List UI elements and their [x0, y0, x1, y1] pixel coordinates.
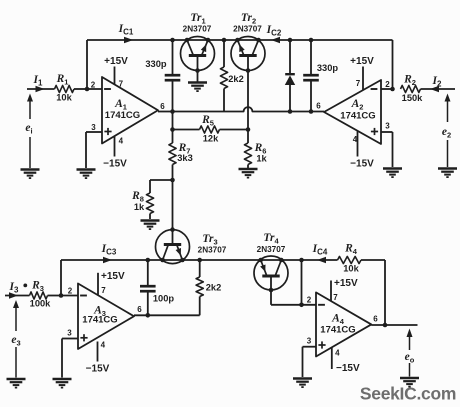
wire R8 horizontal stub [150, 179, 173, 181]
pin 7 line of A2 [362, 67, 364, 90]
pin 4 line of A3 [97, 342, 99, 362]
resistor R6 [244, 143, 251, 165]
current arrow I1 [36, 86, 45, 93]
junction dot at A4 pin 2 node [299, 303, 304, 308]
resistor 2k2 (top) [220, 67, 227, 89]
wire vertical from top rail down to node 2 of A2 [392, 40, 394, 89]
svg-text:3k3: 3k3 [177, 153, 193, 163]
source arrow e_i [27, 94, 33, 102]
svg-text:IC4: IC4 [312, 243, 328, 257]
junction dot 2k2 top on rail [222, 38, 227, 43]
node junction at A2 pin 2 [390, 87, 395, 92]
node junction at A1 pin 2 [85, 87, 90, 92]
op-amp A3 [78, 284, 134, 350]
pin 2 wire of A3 [61, 295, 78, 297]
svg-text:R1: R1 [56, 73, 69, 87]
resistor R3 [30, 292, 48, 299]
svg-text:100p: 100p [153, 294, 175, 304]
svg-text:R3: R3 [31, 280, 44, 294]
wire node down to Tr3 base [172, 180, 174, 230]
svg-text:2: 2 [385, 80, 390, 89]
pin 7 line of A1 [114, 67, 116, 85]
base lead of Tr2 down to R5/R6 node [247, 57, 249, 130]
svg-text:3: 3 [67, 328, 72, 337]
junction dot 330p right bottom [309, 109, 314, 114]
non-inverting input marker of A1 [104, 131, 111, 133]
wire R4 to output corner [384, 260, 386, 325]
wire R3 to node 2 of A3 [48, 295, 62, 297]
wire R5 left stub [173, 129, 200, 131]
wire diode to mid rail [289, 85, 291, 112]
junction dot Tr4 left on bottom rail [258, 258, 263, 263]
junction dot Tr2 right on top rail [256, 38, 261, 43]
svg-text:I1: I1 [33, 74, 43, 88]
ground of A3 pin 3 [53, 378, 72, 380]
svg-text:−15V: −15V [350, 159, 374, 170]
wire R8 bottom stub [149, 214, 151, 220]
node junction at A3 pin 2 [59, 293, 64, 298]
svg-text:e3: e3 [11, 334, 20, 348]
wire top rail to 2k2 [223, 40, 225, 67]
pin 2 wire of A2 [381, 88, 393, 90]
op-amp A1 [102, 77, 158, 144]
svg-text:3: 3 [385, 121, 390, 130]
svg-text:4: 4 [119, 137, 124, 146]
wire bottom rail (I_C3/I_C4) [61, 259, 338, 261]
svg-text:R5: R5 [201, 114, 214, 128]
junction dot diode top on rail [288, 38, 293, 43]
pin 3 wire of A1 [86, 131, 102, 133]
wire vertical from node 2 of A1 up to top rail [86, 40, 88, 89]
wire top rail to 330p left [172, 40, 174, 74]
svg-text:IC3: IC3 [101, 243, 117, 257]
svg-text:1741CG: 1741CG [105, 110, 140, 121]
wire rail to 2k2 bottom resistor [199, 260, 201, 277]
junction dot 100p bottom [146, 313, 151, 318]
current arrow I3 [9, 292, 18, 299]
svg-text:R2: R2 [403, 74, 416, 88]
svg-text:+15V: +15V [101, 271, 125, 282]
wire A3 node 2 up to bottom rail [60, 260, 62, 296]
svg-text:1741CG: 1741CG [320, 325, 355, 336]
wire R1 to node 2 [74, 88, 87, 90]
svg-text:+15V: +15V [334, 278, 358, 289]
resistor R1 [55, 85, 75, 92]
wire A1 output [158, 111, 173, 113]
source arrow e_2 [445, 94, 451, 102]
resistor R5 [200, 126, 220, 133]
base lead of Tr1 [197, 57, 199, 82]
svg-text:IC2: IC2 [266, 24, 282, 38]
pin 4 line of A2 [357, 131, 359, 156]
ground of e_2 [438, 167, 457, 169]
svg-text:2k2: 2k2 [206, 283, 222, 293]
junction dot Tr3 right on bottom rail [180, 258, 185, 263]
junction dot 100p top on bottom rail [146, 258, 151, 263]
wire 330p right to mid rail [310, 82, 312, 112]
svg-text:10k: 10k [56, 93, 72, 103]
junction dot Tr2 left on top rail [235, 38, 240, 43]
inverting input marker of A4 [318, 304, 325, 306]
diode [285, 73, 295, 75]
pin 7 line of A4 [330, 281, 332, 302]
base lead of Tr3 [172, 230, 174, 243]
svg-text:330p: 330p [317, 63, 339, 73]
wire 2k2 to mid rail [223, 89, 225, 112]
svg-text:7: 7 [101, 286, 106, 295]
wire e_o to ground [409, 363, 411, 377]
inverting input marker of A2 [371, 88, 378, 90]
current arrow I_C2 [271, 37, 280, 44]
wire R7 to R8 node [172, 165, 174, 181]
wire A4 output [371, 324, 417, 326]
pin 4 line of A1 [114, 136, 116, 157]
wire input I1 [27, 88, 55, 90]
wire Tr4 base to A4 pin 2 [271, 304, 316, 306]
source arrow e_3 [13, 300, 19, 308]
capacitor 330p (left) [165, 74, 181, 77]
svg-text:ei: ei [25, 122, 32, 136]
op-amp A2 [324, 80, 381, 144]
resistor R2 [401, 85, 421, 92]
svg-text:6: 6 [316, 101, 321, 110]
svg-text:2N3707: 2N3707 [183, 25, 212, 34]
svg-text:1741CG: 1741CG [82, 315, 117, 326]
wire R6 top stub [247, 130, 249, 144]
svg-text:2: 2 [307, 296, 312, 305]
svg-text:IC1: IC1 [118, 23, 134, 37]
svg-text:R4: R4 [344, 243, 358, 257]
non-inverting input marker of A3 [80, 337, 87, 339]
transistor Tr4 [254, 256, 288, 290]
svg-text:e2: e2 [442, 126, 451, 140]
non-inverting input marker of A4 [318, 344, 325, 346]
junction dot Tr1 right on top rail [206, 38, 211, 43]
current arrow I2 [430, 86, 439, 93]
ground of e_o [400, 377, 419, 379]
junction dot 2k2 bottom on rail [197, 258, 202, 263]
wire 2k2 to A3 output wire [199, 297, 201, 316]
wire top rail to 330p right [310, 40, 312, 74]
svg-text:eo: eo [405, 351, 415, 365]
svg-text:−15V: −15V [336, 363, 360, 374]
current arrow I_C4 [317, 257, 326, 264]
junction dot 330p right top on rail [309, 38, 314, 43]
svg-text:330p: 330p [145, 59, 167, 69]
svg-text:1741CG: 1741CG [340, 111, 375, 122]
wire bottom rail right of R4 [361, 259, 385, 261]
svg-text:4: 4 [353, 135, 358, 144]
wire e_2 to ground [447, 140, 449, 167]
junction dot A1 output node [170, 109, 175, 114]
svg-text:2N3707: 2N3707 [198, 246, 227, 255]
svg-text:2k2: 2k2 [228, 74, 244, 84]
svg-text:2N3707: 2N3707 [257, 245, 286, 254]
pin 3 wire of A4 [303, 346, 317, 348]
stray node dot [23, 284, 27, 288]
junction dot R7/R8/Tr3 node [170, 178, 175, 183]
current arrow I_C3 [103, 257, 112, 264]
wire e_3 to ground [15, 347, 17, 378]
junction dot Tr4 base at circle bottom [269, 288, 274, 293]
svg-text:+15V: +15V [104, 56, 128, 67]
op-amp A4 [316, 292, 371, 356]
junction dot on top rail for 330p (left) [170, 38, 175, 43]
ground of A4 pin 3 [293, 377, 312, 379]
wire e_i to ground [29, 137, 31, 168]
svg-text:3: 3 [307, 336, 312, 345]
current arrow I_C1 [124, 37, 133, 44]
capacitor 330p (right) [303, 74, 319, 77]
ground of Tr1 [188, 81, 207, 83]
junction dot Tr1 base at circle [195, 68, 200, 73]
wire A3 output [134, 314, 200, 316]
wire R2 to input [421, 88, 456, 90]
wire 100p to A3 output [147, 293, 149, 316]
wire bottom rail down to A4 pin 2 node [301, 260, 303, 305]
svg-text:SeekIC.com: SeekIC.com [360, 384, 456, 404]
pin 7 line of A3 [97, 273, 99, 295]
wire mid node to R5 [172, 112, 174, 144]
pin 2 wire of A1 [87, 88, 102, 90]
transistor Tr2 [231, 37, 265, 71]
ground of e_3 [7, 378, 26, 380]
source arrow e_o [407, 329, 413, 338]
resistor R8 [146, 193, 153, 214]
svg-text:6: 6 [160, 102, 165, 111]
base lead of Tr4 [270, 278, 272, 305]
svg-text:1k: 1k [134, 202, 145, 212]
svg-text:3: 3 [91, 123, 96, 132]
svg-text:4: 4 [335, 349, 340, 358]
transistor Tr3 [156, 230, 190, 264]
svg-text:−15V: −15V [103, 159, 127, 170]
svg-text:6: 6 [373, 314, 378, 323]
svg-text:1k: 1k [256, 154, 267, 164]
pin 3 wire of A2 [381, 131, 393, 133]
svg-text:7: 7 [356, 79, 361, 88]
svg-text:I3: I3 [9, 281, 19, 295]
svg-text:7: 7 [333, 293, 338, 302]
junction dot Tr2 base at circle [246, 68, 251, 73]
wire top rail to diode [289, 40, 291, 74]
junction dot at R5 left / R7 top [170, 127, 175, 132]
inverting input marker of A1 [104, 88, 111, 90]
resistor R4 [338, 256, 362, 263]
svg-text:6: 6 [137, 305, 142, 314]
svg-text:12k: 12k [203, 134, 219, 144]
junction dot diode bottom [288, 109, 293, 114]
wire 330p left to A1 output node [172, 82, 174, 112]
ground of A1 pin 3 [77, 168, 96, 170]
junction dot Tr2 base / R6 node [246, 127, 251, 132]
junction dot Tr1 left on top rail [185, 38, 190, 43]
resistor R7 [169, 143, 176, 165]
transistor Tr1 [181, 37, 215, 71]
svg-text:7: 7 [119, 79, 124, 88]
wire input I3 [5, 295, 30, 297]
svg-text:−15V: −15V [86, 364, 110, 375]
svg-text:I2: I2 [432, 75, 442, 89]
wire bottom rail to 100p [147, 260, 149, 285]
junction dot Tr3 left on bottom rail [160, 258, 165, 263]
wire R5 to Tr2 base node [220, 129, 249, 131]
pin 3 wire of A3 [62, 338, 78, 340]
junction dot Tr3 base at circle top [170, 227, 175, 232]
junction dot Tr4 right on bottom rail [279, 258, 284, 263]
ground of e_i [21, 168, 40, 170]
svg-text:4: 4 [101, 341, 106, 350]
wire A1 output rail to A2 output (hop over Tr2 base) [173, 107, 325, 111]
svg-text:10k: 10k [343, 264, 359, 274]
ground of R8 [141, 219, 160, 221]
junction dot A4 branch on bottom rail [299, 258, 304, 263]
svg-text:2: 2 [91, 80, 96, 89]
ground of R6 [239, 168, 258, 170]
svg-text:100k: 100k [30, 299, 52, 309]
wire feedback top rail (A1 pin2 to A2 pin2) [87, 39, 393, 41]
svg-text:2: 2 [68, 286, 73, 295]
resistor 2k2 (bottom) [196, 277, 203, 297]
svg-text:+15V: +15V [350, 56, 374, 67]
svg-text:Tr4: Tr4 [263, 232, 279, 246]
ground of A2 pin 3 [383, 167, 402, 169]
capacitor 100p [140, 285, 156, 288]
svg-text:150k: 150k [402, 93, 424, 103]
pin 4 line of A4 [331, 348, 333, 370]
non-inverting input marker of A2 [371, 131, 378, 133]
svg-text:2N3707: 2N3707 [233, 25, 262, 34]
inverting input marker of A3 [80, 295, 87, 297]
junction dot at A4 output [383, 323, 388, 328]
wire R6 bottom stub [247, 165, 249, 169]
